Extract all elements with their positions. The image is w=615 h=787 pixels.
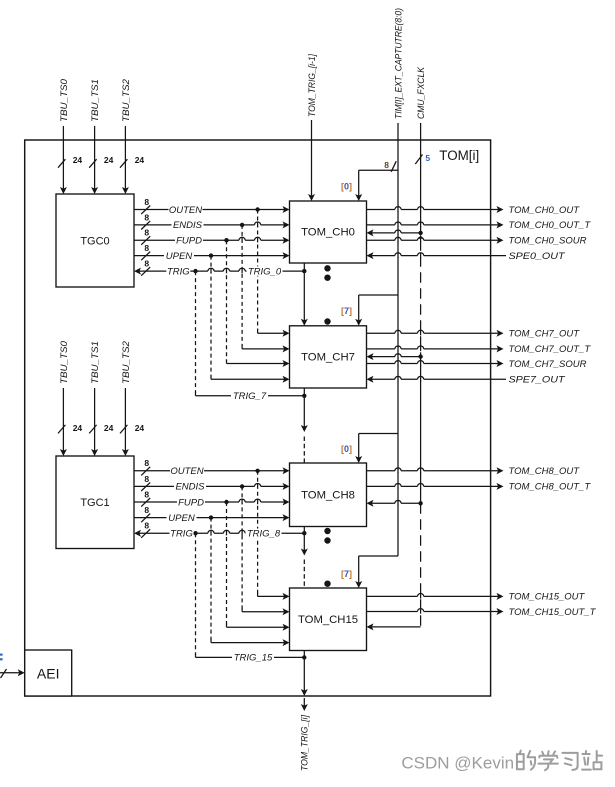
svg-text:TOM_CH8_OUT: TOM_CH8_OUT (509, 466, 581, 477)
ellipsis dot (channels 9..14) (324, 537, 330, 543)
wire TOM_CH0_OUT_T output TOM_CH0 (367, 221, 504, 228)
wire TRIG TGC1 return with 8-slash, junctions and hops (134, 521, 306, 538)
label SPE0_OUT (509, 251, 566, 262)
label UPEN TGC0 (164, 251, 194, 262)
label TOM_CH7_OUT (509, 329, 581, 340)
wire CMU_FXCLK dashed segment CH0-CH7 with up arrow (418, 235, 423, 357)
label [7] for TOM_CH15 (341, 569, 352, 579)
title TOM[i] (439, 148, 479, 163)
svg-text:24: 24 (135, 423, 145, 433)
svg-text:8: 8 (144, 489, 149, 499)
arrowhead into TOM_CH15 left input (283, 624, 290, 631)
wire TOM_CH15_OUT output TOM_CH15 (367, 593, 504, 600)
outer module boundary TOM[i] (25, 140, 491, 696)
label TBU_TS1 (rotated, TGC1 group) (90, 341, 101, 384)
label [7] for TOM_CH7 (341, 306, 352, 316)
wire trigger cascade dashed to TOM_CH8 (303, 437, 305, 464)
wire TBU_TS1 input to TGC0 with 24-bit slash (89, 126, 113, 194)
svg-text:TOM_CH0: TOM_CH0 (301, 227, 355, 239)
label FUPD TGC0 (175, 236, 203, 247)
svg-text:8: 8 (144, 505, 149, 515)
dashed wire OUTEN drop to TOM_CH15 input (258, 471, 287, 597)
label TIM[I]_EXT_CAPTUTRE(8:0) (rotated) (393, 8, 404, 119)
svg-text:TOM_CH15: TOM_CH15 (298, 614, 358, 626)
label CMU_FXCLK (rotated) (416, 66, 427, 119)
block TGC1 (56, 456, 134, 549)
label TOM_CH7_SOUR (509, 359, 587, 370)
svg-text:TOM[i]: TOM[i] (439, 148, 479, 163)
svg-text:5: 5 (425, 153, 430, 163)
label AEI (37, 666, 60, 682)
wire TOM_TRIG_[i] output below TOM_CH15 (301, 651, 308, 712)
wire trigger cascade TOM_CH0 to TOM_CH7 (301, 263, 308, 326)
dashed wire TRIG drop to TRIG_7 node (195, 271, 197, 396)
svg-text:8: 8 (384, 160, 389, 170)
arrowhead into TOM_CH15 left input (283, 639, 290, 646)
ellipsis dot (channels 1..6) (324, 318, 330, 324)
block TGC0 (56, 194, 134, 287)
wire TBU_TS2 input to TGC1 with 24-bit slash (120, 388, 144, 456)
svg-text:TRIG: TRIG (170, 529, 193, 540)
wire OUTEN TGC1 with 8-slash and junction (134, 458, 290, 475)
wire CMU_FXCLK clock input TOM_CH0 (367, 229, 423, 236)
svg-text:TIM[I]_EXT_CAPTUTRE(8:0): TIM[I]_EXT_CAPTUTRE(8:0) (393, 8, 404, 119)
wire TIM[i]_EXT_CAPTUTRE(8:0) vertical bus (397, 123, 399, 556)
svg-text:ENDIS: ENDIS (175, 482, 205, 493)
watermark CSDN @Kevin的学习站 (401, 751, 602, 773)
wire CMU_FXCLK solid segment CH7-CH8 (420, 357, 422, 504)
arrowhead into TOM_CH15 left input (283, 593, 290, 600)
svg-text:8: 8 (144, 259, 149, 269)
svg-text:ENDIS: ENDIS (173, 220, 203, 231)
label TOM_CH7 (301, 352, 355, 364)
wire TOM_CH15_OUT_T output TOM_CH15 (367, 608, 504, 615)
label TOM_CH8 (301, 489, 355, 501)
label TBU_TS2 (rotated, TGC1 group) (121, 340, 132, 384)
label UPEN TGC1 (167, 513, 197, 524)
svg-text:TRIG_8: TRIG_8 (247, 529, 281, 540)
svg-text:TBU_TS2: TBU_TS2 (121, 78, 132, 122)
dashed wire UPEN drop to TOM_CH15 input (211, 518, 286, 643)
svg-text:FUPD: FUPD (176, 236, 202, 247)
label TOM_CH0_OUT (509, 205, 581, 216)
arrowhead into TOM_CH7 left input (283, 345, 290, 352)
wire CMU_FXCLK vertical (solid top) with 5-bit slash (415, 123, 430, 233)
wire CMU_FXCLK clock input TOM_CH7 (367, 353, 423, 360)
svg-text:TRIG_15: TRIG_15 (234, 653, 273, 664)
wire UPEN TGC0 with 8-slash and junction (134, 243, 290, 260)
dashed wire TRIG drop to TRIG_15 node (195, 533, 197, 657)
label TBU_TS2 (rotated) (121, 78, 132, 122)
label TOM_CH0_SOUR (509, 236, 587, 247)
label FUPD TGC1 (177, 497, 205, 508)
svg-text:TRIG_0: TRIG_0 (248, 266, 282, 277)
label [0] for TOM_CH8 (341, 444, 352, 454)
wire SPE0_OUT input TOM_CH0 (367, 252, 507, 259)
svg-text:8: 8 (144, 458, 149, 468)
label TRIG TGC0 (166, 266, 190, 277)
block TOM_CH0 (290, 201, 367, 263)
svg-text:SPE0_OUT: SPE0_OUT (509, 251, 566, 262)
wire TRIG TGC0 return with 8-slash, junctions and hops (134, 259, 306, 276)
ellipsis dot (channels 9..14) (324, 528, 330, 534)
label TBU_TS0 (rotated) (59, 78, 70, 122)
svg-text:8: 8 (144, 212, 149, 222)
label TOM_CH0_OUT_T (509, 220, 592, 231)
block TOM_CH7 (290, 326, 367, 388)
branch capture [0] into TOM_CH0 with 8-bit slash (355, 160, 398, 201)
wire TOM_CH8_OUT output TOM_CH8 (367, 467, 504, 474)
label TOM_TRIG_[i] (rotated) (300, 715, 311, 771)
ellipsis dot (channels 9..14) (324, 581, 330, 587)
label ENDIS TGC0 (172, 220, 204, 231)
svg-text:8: 8 (144, 228, 149, 238)
svg-text:8: 8 (144, 474, 149, 484)
svg-text:TOM_CH15_OUT: TOM_CH15_OUT (509, 592, 586, 603)
label TOM_CH8_OUT_T (509, 482, 592, 493)
svg-text:[7]: [7] (341, 306, 352, 316)
dashed wire FUPD drop to TOM_CH15 input (227, 502, 287, 627)
svg-text:8: 8 (144, 521, 149, 531)
wire TRIG_15 feedback row (196, 655, 307, 659)
svg-text:TOM_CH15_OUT_T: TOM_CH15_OUT_T (509, 607, 597, 618)
svg-text:TOM_CH7_OUT: TOM_CH7_OUT (509, 329, 581, 340)
svg-text:TOM_CH7_SOUR: TOM_CH7_SOUR (509, 359, 587, 370)
svg-text:AEI: AEI (37, 666, 60, 682)
branch capture [0] into TOM_CH8 (355, 434, 398, 464)
wire trigger cascade TOM_CH7 down (arrow) (301, 388, 308, 432)
wire TOM_TRIG_[i-1] into TOM_CH0 (308, 120, 315, 201)
svg-text:TBU_TS0: TBU_TS0 (59, 78, 70, 122)
svg-text:UPEN: UPEN (168, 513, 195, 524)
label TOM_CH0 (301, 227, 355, 239)
svg-text:SPE7_OUT: SPE7_OUT (509, 375, 566, 386)
svg-text:CMU_FXCLK: CMU_FXCLK (416, 66, 427, 119)
block TOM_CH15 (290, 588, 367, 651)
wire trigger cascade dashed to TOM_CH15 (303, 560, 305, 589)
wire UPEN TGC1 with 8-slash and junction (134, 505, 290, 522)
branch capture [7] into TOM_CH7 (355, 295, 398, 326)
wire TOM_CH0_SOUR output TOM_CH0 (367, 237, 504, 244)
label TBU_TS1 (rotated) (90, 79, 101, 122)
wire TOM_CH0_OUT output TOM_CH0 (367, 206, 504, 213)
ellipsis dot (channels 1..6) (324, 265, 330, 271)
wire TRIG_7 feedback row (196, 394, 307, 398)
wire OUTEN TGC0 with 8-slash and junction (134, 197, 290, 214)
arrowhead into TOM_CH7 left input (283, 376, 290, 383)
svg-text:24: 24 (104, 155, 114, 165)
wire TOM_CH7_OUT_T output TOM_CH7 (367, 345, 504, 352)
label ENDIS TGC1 (174, 482, 206, 493)
wire CMU_FXCLK clock input TOM_CH15 (end) (367, 623, 421, 630)
label TBU_TS0 (rotated, TGC1 group) (59, 340, 70, 384)
block TOM_CH8 (290, 463, 367, 527)
svg-text:TBU_TS1: TBU_TS1 (90, 341, 101, 384)
wire trigger cascade TOM_CH8 down (arrow) (301, 527, 308, 556)
svg-text:FUPD: FUPD (178, 497, 204, 508)
label TOM_CH15_OUT (509, 592, 586, 603)
svg-text:TBU_TS1: TBU_TS1 (90, 79, 101, 122)
wire TOM_CH7_OUT output TOM_CH7 (367, 330, 504, 337)
label [0] for TOM_CH0 (341, 182, 352, 192)
wire TOM_CH8_OUT_T output TOM_CH8 (367, 483, 504, 490)
svg-text:OUTEN: OUTEN (169, 205, 202, 216)
wire AEI bus input with slash (0, 669, 25, 678)
label TOM_CH7_OUT_T (509, 344, 592, 355)
label TOM_TRIG_[i-1] (rotated) (307, 54, 318, 117)
label TRIG_8 (246, 529, 282, 540)
svg-text:TRIG_7: TRIG_7 (233, 391, 267, 402)
label TRIG_15 (232, 653, 274, 664)
wire FUPD TGC1 with 8-slash, junction and hops (134, 489, 290, 506)
label SPE7_OUT (509, 375, 566, 386)
svg-text:TOM_CH8_OUT_T: TOM_CH8_OUT_T (509, 482, 592, 493)
dashed wire ENDIS drop to TOM_CH7 input (242, 225, 286, 349)
arrowhead into TOM_CH15 left input (283, 608, 290, 615)
dashed wire ENDIS drop to TOM_CH15 input (242, 486, 286, 611)
svg-text:TGC0: TGC0 (80, 235, 109, 247)
svg-text:8: 8 (144, 197, 149, 207)
label TOM_CH15_OUT_T (509, 607, 597, 618)
svg-text:TRIG: TRIG (167, 266, 190, 277)
svg-text:TOM_CH8: TOM_CH8 (301, 489, 355, 501)
arrowhead into TOM_CH7 left input (283, 360, 290, 367)
svg-text:TOM_CH0_OUT: TOM_CH0_OUT (509, 205, 581, 216)
label TGC0 (80, 235, 109, 247)
ellipsis dot (channels 1..6) (324, 275, 330, 281)
wire CMU_FXCLK dashed segment CH8-CH15 (420, 503, 422, 627)
label TRIG_7 (231, 391, 268, 402)
dashed wire UPEN drop to TOM_CH7 input (211, 256, 286, 380)
svg-text:CSDN @Kevin: CSDN @Kevin (401, 754, 514, 773)
svg-text:TOM_CH7: TOM_CH7 (301, 352, 355, 364)
svg-text:TOM_TRIG_[i-1]: TOM_TRIG_[i-1] (307, 54, 318, 117)
label TRIG TGC1 (170, 529, 194, 540)
svg-text:24: 24 (135, 155, 145, 165)
wire TBU_TS0 input to TGC1 with 24-bit slash (58, 388, 82, 456)
block AEI (25, 650, 72, 696)
svg-text:OUTEN: OUTEN (170, 466, 203, 477)
svg-text:UPEN: UPEN (166, 251, 193, 262)
svg-text:TOM_CH0_SOUR: TOM_CH0_SOUR (509, 236, 587, 247)
svg-text:[0]: [0] (341, 444, 352, 454)
svg-text:TBU_TS2: TBU_TS2 (121, 340, 132, 384)
wire ENDIS TGC0 with 8-slash, junction and hop (134, 212, 290, 229)
label TGC1 (80, 497, 109, 509)
svg-text:TBU_TS0: TBU_TS0 (59, 340, 70, 384)
wire FUPD TGC0 with 8-slash, junction and hops (134, 228, 290, 245)
wire ENDIS TGC1 with 8-slash, junction and hop (134, 474, 290, 491)
wire TBU_TS1 input to TGC1 with 24-bit slash (89, 388, 113, 456)
dashed wire OUTEN drop to TOM_CH7 input (258, 210, 287, 334)
arrowhead into TOM_CH7 left input (283, 330, 290, 337)
wire TBU_TS2 input to TGC0 with 24-bit slash (120, 126, 144, 194)
dashed wire FUPD drop to TOM_CH7 input (227, 240, 287, 363)
svg-text:TOM_TRIG_[i]: TOM_TRIG_[i] (300, 715, 311, 771)
svg-text:TOM_CH0_OUT_T: TOM_CH0_OUT_T (509, 220, 592, 231)
label TRIG_0 (247, 266, 283, 277)
svg-text:8: 8 (144, 243, 149, 253)
clipped blue label fragment at left edge (0, 654, 3, 661)
label TOM_CH8_OUT (509, 466, 581, 477)
svg-text:[0]: [0] (341, 182, 352, 192)
svg-text:[7]: [7] (341, 569, 352, 579)
svg-text:TOM_CH7_OUT_T: TOM_CH7_OUT_T (509, 344, 592, 355)
svg-text:TGC1: TGC1 (80, 497, 109, 509)
label OUTEN TGC1 (170, 466, 204, 477)
wire TBU_TS0 input to TGC0 with 24-bit slash (58, 126, 82, 194)
label OUTEN TGC0 (169, 205, 203, 216)
label TOM_CH15 (298, 614, 358, 626)
wire SPE7_OUT input TOM_CH7 (367, 376, 507, 383)
wire CMU_FXCLK clock input TOM_CH8 (367, 500, 423, 507)
svg-text:24: 24 (73, 423, 83, 433)
svg-text:24: 24 (104, 423, 114, 433)
svg-text:24: 24 (73, 155, 83, 165)
branch capture [7] into TOM_CH15 (end of bus) (355, 556, 398, 588)
wire TOM_CH7_SOUR output TOM_CH7 (367, 360, 504, 367)
